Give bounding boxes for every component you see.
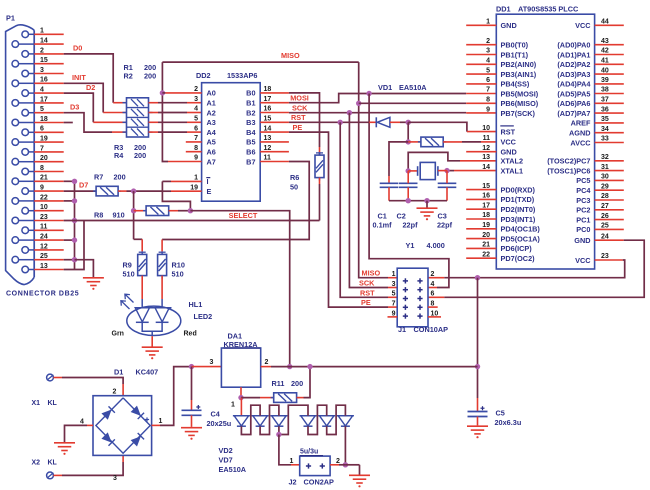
svg-text:PB4(SS): PB4(SS) bbox=[501, 80, 530, 89]
svg-text:B2: B2 bbox=[246, 108, 255, 117]
P1 pin 4 stub bbox=[34, 92, 64, 94]
LED HL1 arrows bbox=[125, 294, 134, 302]
DD2 pin 8 stub bbox=[186, 151, 202, 153]
resistor R7 bbox=[96, 186, 118, 196]
terminal X2 bbox=[47, 472, 54, 479]
diode VD1 EA510A bbox=[375, 117, 377, 127]
svg-text:29: 29 bbox=[601, 183, 609, 190]
svg-text:2: 2 bbox=[113, 389, 117, 396]
junction VCC rail C5 branch bbox=[475, 275, 480, 280]
svg-text:PC5: PC5 bbox=[576, 176, 590, 185]
wire VD4 to VD5 bbox=[279, 405, 308, 434]
svg-text:2: 2 bbox=[265, 359, 269, 366]
svg-text:15: 15 bbox=[482, 183, 490, 190]
wire VD5 to VD6 bbox=[308, 405, 327, 434]
svg-text:CON10AP: CON10AP bbox=[414, 325, 449, 334]
svg-text:VCC: VCC bbox=[575, 21, 591, 30]
svg-text:Y1: Y1 bbox=[406, 241, 415, 250]
P1 pin 25 stub bbox=[34, 259, 64, 261]
junction crystal right bbox=[444, 168, 449, 173]
svg-text:HL1: HL1 bbox=[189, 300, 203, 309]
svg-text:5: 5 bbox=[486, 67, 490, 74]
DD2 pin 18 stub bbox=[260, 92, 289, 94]
resistor R9 bbox=[138, 254, 147, 275]
P1 pin 2 contact bbox=[22, 51, 29, 58]
P1 pin 14 contact bbox=[12, 41, 19, 48]
svg-text:510: 510 bbox=[172, 270, 184, 279]
svg-text:PC0: PC0 bbox=[576, 225, 590, 234]
svg-text:PD4(OC1B): PD4(OC1B) bbox=[501, 225, 541, 234]
DD2 pin 9 stub bbox=[168, 161, 202, 163]
svg-text:A1: A1 bbox=[207, 99, 216, 108]
DD1 pin 27 stub bbox=[595, 209, 624, 211]
resistor R10 bbox=[158, 254, 167, 275]
svg-text:AGND: AGND bbox=[569, 129, 591, 138]
svg-text:13: 13 bbox=[264, 135, 272, 142]
svg-text:12: 12 bbox=[264, 145, 272, 152]
P1 pin 10 contact bbox=[22, 207, 29, 214]
svg-text:38: 38 bbox=[601, 87, 609, 94]
junction crystal ground bbox=[424, 198, 429, 203]
wire R11 to 12V rail bbox=[297, 397, 304, 399]
svg-text:RST: RST bbox=[501, 127, 516, 136]
P1 pin 3 stub bbox=[34, 73, 64, 75]
wire R8 to select node bbox=[169, 210, 178, 212]
bridge rectifier D1 KC407 body bbox=[93, 396, 152, 456]
svg-text:GND: GND bbox=[574, 236, 590, 245]
wire R10 to LED red anode bbox=[161, 276, 163, 299]
junction SELECT at rail bbox=[287, 364, 292, 369]
svg-text:PD2(INT0): PD2(INT0) bbox=[501, 205, 536, 214]
svg-text:EA510A: EA510A bbox=[399, 83, 427, 92]
wire LED to ground bbox=[151, 336, 153, 346]
svg-text:11: 11 bbox=[264, 155, 272, 162]
wire R6 bottom to SELECT2 line bbox=[319, 178, 321, 184]
svg-text:MOSI: MOSI bbox=[290, 94, 309, 103]
junction P1 pin25 bbox=[72, 257, 77, 262]
svg-text:A3: A3 bbox=[207, 118, 216, 127]
DD1 pin 2 stub bbox=[466, 44, 496, 46]
svg-text:(AD3)PA3: (AD3)PA3 bbox=[557, 70, 590, 79]
svg-text:0.1mf: 0.1mf bbox=[373, 221, 393, 230]
svg-text:AREF: AREF bbox=[571, 119, 591, 128]
DD1 pin 42 stub bbox=[595, 54, 624, 56]
svg-text:22: 22 bbox=[482, 251, 490, 258]
diode VD5 bbox=[300, 415, 317, 417]
P1 pin 24 contact bbox=[12, 237, 19, 244]
wire to R9 bbox=[134, 238, 143, 240]
P1 pin 1 contact bbox=[22, 31, 29, 38]
P1 pin 5 contact bbox=[22, 109, 29, 116]
svg-text:9: 9 bbox=[194, 155, 198, 162]
wire P1 pin18 stub extension bbox=[64, 122, 73, 124]
DD1 pin 4 stub bbox=[466, 63, 496, 65]
P1 pin 17 stub bbox=[34, 102, 64, 104]
J1 pin 10 stub bbox=[428, 316, 441, 318]
P1 pin 10 stub bbox=[34, 210, 64, 212]
svg-text:X2: X2 bbox=[32, 460, 41, 467]
svg-text:39: 39 bbox=[601, 77, 609, 84]
junction P1 pin22 bbox=[72, 198, 77, 203]
P1 pin 21 contact bbox=[12, 178, 19, 185]
junction C4 node bbox=[189, 364, 194, 369]
bridge D1 plus mark bbox=[145, 419, 149, 421]
J1 pin 9 stub bbox=[388, 316, 398, 318]
J1 contact row 1 plus marks bbox=[403, 280, 408, 282]
svg-text:4: 4 bbox=[486, 58, 490, 65]
svg-text:35: 35 bbox=[601, 116, 609, 123]
svg-text:4: 4 bbox=[194, 106, 198, 113]
junction crystal left bbox=[406, 168, 411, 173]
P1 pin 12 stub bbox=[34, 249, 64, 251]
DD1 pin 28 stub bbox=[595, 199, 624, 201]
svg-text:A7: A7 bbox=[207, 157, 216, 166]
svg-text:50: 50 bbox=[290, 182, 298, 191]
ground symbol bridge bbox=[54, 442, 75, 444]
capacitor C5 bbox=[468, 411, 488, 413]
DD1 RST overline bbox=[500, 125, 514, 127]
P1 pin 22 contact bbox=[12, 198, 19, 205]
svg-text:14: 14 bbox=[264, 125, 272, 132]
svg-text:C3: C3 bbox=[438, 211, 447, 220]
svg-text:23: 23 bbox=[601, 253, 609, 260]
ground symbol C5 bbox=[467, 425, 488, 427]
svg-text:6: 6 bbox=[486, 77, 490, 84]
svg-text:16: 16 bbox=[482, 193, 490, 200]
diode VD3 bbox=[252, 415, 269, 417]
DD1 pin 31 stub bbox=[595, 170, 624, 172]
wire pullup to DD1 VCC pin11 bbox=[443, 141, 462, 143]
P1 pin 22 stub bbox=[34, 200, 64, 202]
svg-text:2: 2 bbox=[431, 271, 435, 278]
bridge D1 diamond bbox=[96, 398, 150, 453]
svg-text:B0: B0 bbox=[246, 89, 255, 98]
wire bridge minus to ground bbox=[87, 424, 93, 426]
P1 pin 11 stub bbox=[34, 229, 64, 231]
DD1 pin 15 stub bbox=[466, 189, 496, 191]
DD1 pin 36 stub bbox=[595, 112, 624, 114]
capacitor C1 bbox=[380, 182, 399, 184]
svg-text:D2: D2 bbox=[86, 83, 95, 92]
svg-text:MISO: MISO bbox=[362, 269, 381, 278]
svg-text:B5: B5 bbox=[246, 138, 255, 147]
wire B7 from DD2 pin11 to R10 bbox=[162, 162, 309, 240]
svg-text:7: 7 bbox=[194, 135, 198, 142]
svg-text:37: 37 bbox=[601, 97, 609, 104]
wire bridge plus to 12V rail bbox=[152, 424, 160, 426]
resistor R6 bbox=[315, 155, 324, 178]
DD1 pin 38 stub bbox=[595, 93, 624, 95]
svg-text:PC4: PC4 bbox=[576, 186, 591, 195]
svg-text:40: 40 bbox=[601, 67, 609, 74]
svg-text:D0: D0 bbox=[73, 44, 82, 53]
svg-text:17: 17 bbox=[264, 96, 272, 103]
svg-text:A0: A0 bbox=[207, 89, 216, 98]
resistor R8 bbox=[134, 210, 147, 212]
svg-text:Grn: Grn bbox=[112, 330, 124, 337]
svg-text:11: 11 bbox=[483, 135, 491, 142]
wire RST to J1 pin5 bbox=[340, 122, 388, 297]
P1 pin 18 stub bbox=[34, 122, 64, 124]
DD1 pin 44 stub bbox=[595, 24, 624, 26]
wire D7 from P1 pin9 to R7 bbox=[64, 190, 96, 192]
svg-text:9: 9 bbox=[486, 106, 490, 113]
svg-text:PC3: PC3 bbox=[576, 196, 590, 205]
svg-text:200: 200 bbox=[144, 71, 156, 80]
wire rail to DA1 input bbox=[192, 366, 222, 368]
P1 pin 6 stub bbox=[34, 131, 64, 133]
wire RST node to pullup resistor bbox=[407, 122, 409, 142]
svg-text:R7: R7 bbox=[94, 173, 103, 182]
svg-text:30: 30 bbox=[601, 174, 609, 181]
svg-text:1: 1 bbox=[290, 458, 294, 465]
wire DA1 ground pin to diode chain bbox=[240, 387, 242, 397]
svg-text:PB2(AIN0): PB2(AIN0) bbox=[501, 60, 537, 69]
svg-text:XTAL1: XTAL1 bbox=[501, 166, 524, 175]
svg-text:20: 20 bbox=[482, 232, 490, 239]
svg-text:18: 18 bbox=[264, 86, 272, 93]
wire X1 to bridge bbox=[53, 377, 62, 379]
wire MISO to DD2 A0 and A7 bbox=[162, 62, 168, 161]
svg-text:22pf: 22pf bbox=[437, 221, 453, 230]
buffer DD2 1533AP6 body bbox=[202, 83, 261, 202]
svg-text:B7: B7 bbox=[246, 157, 255, 166]
svg-text:DD1: DD1 bbox=[496, 5, 511, 14]
svg-text:4: 4 bbox=[431, 281, 435, 288]
P1 pin 1 stub bbox=[34, 33, 64, 35]
connector P1 pin column bbox=[33, 30, 35, 277]
resistor R11 bbox=[241, 397, 260, 399]
ground symbol crystal bbox=[426, 201, 428, 208]
junction C2 ground bbox=[406, 198, 411, 203]
junction MISO at DD1 PB6 bbox=[356, 101, 361, 106]
svg-text:42: 42 bbox=[601, 48, 609, 55]
DD1 pin 21 stub bbox=[466, 247, 496, 249]
svg-text:(AD2)PA2: (AD2)PA2 bbox=[557, 60, 590, 69]
wire DD1 pin24 GND to rail bbox=[595, 239, 624, 241]
wire RST node to C1 bbox=[389, 142, 408, 176]
DD1 pin 37 stub bbox=[595, 102, 624, 104]
P1 pin 8 contact bbox=[22, 168, 29, 175]
P1 pin 8 stub bbox=[34, 171, 64, 173]
svg-text:24: 24 bbox=[601, 233, 609, 240]
P1 pin 7 stub bbox=[34, 151, 64, 153]
terminal X1 bbox=[47, 374, 54, 381]
svg-text:KC407: KC407 bbox=[136, 368, 159, 377]
J1 pin 8 stub bbox=[428, 306, 438, 308]
P1 pin 15 stub bbox=[34, 63, 64, 65]
wire DA1 node to VD2 bbox=[240, 398, 242, 416]
wire MISO to DD1 PB6 bbox=[359, 102, 467, 104]
junction R11 at rail bbox=[307, 364, 312, 369]
svg-text:R8: R8 bbox=[94, 211, 103, 220]
svg-text:26: 26 bbox=[601, 213, 609, 220]
svg-text:16: 16 bbox=[264, 106, 272, 113]
svg-text:A5: A5 bbox=[207, 138, 216, 147]
crystal Y1 bbox=[408, 170, 417, 172]
DD1 pin 29 stub bbox=[595, 189, 624, 191]
wire C4 to ground bbox=[191, 415, 193, 427]
svg-text:C1: C1 bbox=[378, 211, 387, 220]
svg-text:27: 27 bbox=[601, 203, 609, 210]
wire VD7 to J2 pin2 node bbox=[344, 426, 346, 465]
DD1 pin 26 stub bbox=[595, 219, 624, 221]
svg-text:R11: R11 bbox=[272, 379, 285, 388]
junction RST node bbox=[406, 120, 411, 125]
svg-text:B3: B3 bbox=[246, 118, 255, 127]
wire SCK from DD2 B2 to DD1 PB7 bbox=[289, 112, 466, 114]
svg-text:3: 3 bbox=[486, 48, 490, 55]
wire C5 to ground bbox=[477, 417, 479, 426]
DD1 pin 17 stub bbox=[466, 208, 496, 210]
svg-text:44: 44 bbox=[601, 19, 609, 26]
junction P1 pin24 bbox=[72, 237, 77, 242]
DD1 pin 32 stub bbox=[595, 160, 624, 162]
P1 pin 23 stub bbox=[34, 220, 64, 222]
svg-text:INIT: INIT bbox=[72, 73, 86, 82]
svg-text:36: 36 bbox=[601, 106, 609, 113]
svg-text:(AD1)PA1: (AD1)PA1 bbox=[557, 50, 590, 59]
capacitor C3 bbox=[438, 182, 457, 184]
junction R7 output node bbox=[131, 188, 136, 193]
wire INIT from P1 pin16 to R2 bbox=[64, 83, 103, 112]
DD2 pin 1 stub bbox=[171, 180, 202, 182]
P1 pin 2 stub bbox=[34, 53, 64, 55]
J1 contact row 5 plus marks bbox=[403, 315, 408, 317]
svg-text:D7: D7 bbox=[79, 181, 88, 190]
svg-text:XTAL2: XTAL2 bbox=[501, 157, 524, 166]
diode VD7 bbox=[337, 415, 354, 417]
svg-text:VD2: VD2 bbox=[219, 446, 233, 455]
svg-text:I: I bbox=[207, 177, 209, 186]
DD1 pin 16 stub bbox=[466, 198, 496, 200]
regulator DA1 KREN12A body bbox=[221, 348, 260, 387]
svg-text:VCC: VCC bbox=[575, 256, 591, 265]
wire VD6 to VD7 bbox=[327, 405, 346, 434]
svg-text:LED2: LED2 bbox=[194, 312, 213, 321]
svg-text:2: 2 bbox=[486, 38, 490, 45]
svg-text:3: 3 bbox=[392, 281, 396, 288]
diode VD4 bbox=[270, 415, 287, 417]
svg-text:PD6(ICP): PD6(ICP) bbox=[501, 244, 533, 253]
svg-text:4.000: 4.000 bbox=[427, 241, 445, 250]
ground symbol LED bbox=[142, 346, 163, 348]
junction RST branch to J1 bbox=[338, 120, 343, 125]
svg-text:D1: D1 bbox=[114, 368, 123, 377]
svg-text:J1: J1 bbox=[398, 325, 406, 334]
svg-text:GND: GND bbox=[501, 148, 517, 157]
svg-text:KL: KL bbox=[48, 400, 58, 407]
svg-text:19: 19 bbox=[190, 184, 198, 191]
svg-text:PB7(SCK): PB7(SCK) bbox=[501, 109, 536, 118]
svg-text:E: E bbox=[207, 187, 212, 196]
wire DD1 pin23 VCC to rail bbox=[595, 259, 623, 261]
svg-text:12: 12 bbox=[482, 145, 490, 152]
P1 pin 11 contact bbox=[22, 227, 29, 234]
wire P1 pin13 to bus bbox=[64, 221, 84, 270]
svg-text:PC2: PC2 bbox=[576, 206, 590, 215]
P1 pin 4 contact bbox=[22, 90, 29, 97]
DD2 pin 2 stub bbox=[165, 92, 201, 94]
wire PE from DD2 B4 to J1 pin7 bbox=[289, 132, 388, 307]
resistor R5 pullup bbox=[408, 141, 421, 143]
svg-text:7: 7 bbox=[486, 87, 490, 94]
svg-text:PE: PE bbox=[361, 298, 371, 307]
DD1 pin 18 stub bbox=[466, 218, 496, 220]
wire MISO vertical to J1 pin1 bbox=[359, 62, 388, 278]
wire DA1 output to 12V rail bbox=[261, 366, 271, 368]
wire RST from DD2 B3 bbox=[289, 121, 369, 123]
P1 pin 19 contact bbox=[12, 139, 19, 146]
svg-text:Red: Red bbox=[184, 330, 197, 337]
wire R7 node down to R8 and R9 bbox=[133, 191, 135, 239]
svg-text:8: 8 bbox=[194, 145, 198, 152]
svg-text:B1: B1 bbox=[246, 99, 255, 108]
svg-text:B4: B4 bbox=[246, 128, 256, 137]
LED HL1 cathode join bbox=[142, 322, 162, 331]
svg-text:KL: KL bbox=[48, 460, 58, 467]
wire XTAL1 from DD1 pin14 to crystal bbox=[447, 170, 454, 172]
svg-text:510: 510 bbox=[123, 270, 135, 279]
wire MOSI to J1 pin4 bbox=[369, 94, 449, 288]
svg-text:1: 1 bbox=[194, 175, 198, 182]
svg-text:41: 41 bbox=[601, 58, 609, 65]
svg-text:PB0(T0): PB0(T0) bbox=[501, 41, 529, 50]
P1 pin 6 contact bbox=[22, 129, 29, 136]
wire J2 node to ground bbox=[345, 464, 359, 466]
bridge D1 diodes bbox=[101, 406, 114, 419]
wire D3 from P1 pin5 to R4 bbox=[64, 113, 112, 132]
wire VD1 to RST node bbox=[390, 121, 400, 123]
svg-text:(AD7)PA7: (AD7)PA7 bbox=[557, 109, 590, 118]
svg-text:200: 200 bbox=[114, 173, 126, 182]
P1 pin 20 contact bbox=[12, 158, 19, 165]
junction R8 left bbox=[131, 208, 136, 213]
svg-text:R9: R9 bbox=[123, 261, 132, 270]
svg-text:22pf: 22pf bbox=[403, 221, 419, 230]
svg-text:C2: C2 bbox=[397, 211, 406, 220]
wire RST to VD1 bbox=[369, 121, 376, 123]
svg-text:3: 3 bbox=[113, 475, 117, 482]
connector J2 CON2AP body bbox=[300, 456, 330, 476]
svg-text:(TOSC1)PC6: (TOSC1)PC6 bbox=[547, 166, 590, 175]
wire R9 to LED green anode bbox=[141, 276, 143, 299]
DD1 pin 34 stub bbox=[595, 132, 624, 134]
DD1 pin 1 stub bbox=[466, 24, 496, 26]
svg-text:AVCC: AVCC bbox=[570, 138, 591, 147]
svg-text:1: 1 bbox=[392, 271, 396, 278]
svg-text:13: 13 bbox=[482, 154, 490, 161]
svg-text:B6: B6 bbox=[246, 148, 255, 157]
svg-text:43: 43 bbox=[601, 38, 609, 45]
DD1 pin 25 stub bbox=[595, 228, 624, 230]
svg-text:20x6.3u: 20x6.3u bbox=[495, 418, 522, 427]
junction MISO at DD2 pin2 bbox=[160, 90, 165, 95]
P1 pin 16 stub bbox=[34, 82, 64, 84]
junction J2 pin2 node bbox=[343, 462, 348, 467]
svg-text:PB1(T1): PB1(T1) bbox=[501, 50, 529, 59]
svg-text:PD3(INT1): PD3(INT1) bbox=[501, 215, 536, 224]
P1 pin 9 contact bbox=[22, 188, 29, 195]
svg-text:(AD5)PA5: (AD5)PA5 bbox=[557, 89, 590, 98]
svg-text:4: 4 bbox=[80, 419, 84, 426]
P1 pin 13 stub bbox=[34, 269, 64, 271]
svg-text:6: 6 bbox=[194, 125, 198, 132]
wire ground bus on P1 pins 21-25 bbox=[74, 181, 76, 269]
P1 pin 25 contact bbox=[12, 256, 19, 263]
LED HL1 body bbox=[127, 306, 181, 335]
svg-text:25: 25 bbox=[601, 223, 609, 230]
